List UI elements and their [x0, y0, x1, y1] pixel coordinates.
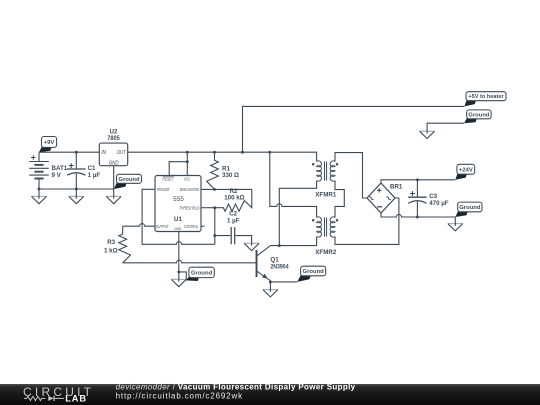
svg-text:555: 555 — [173, 196, 184, 203]
resistor R2 — [215, 189, 252, 211]
wire gnd flag link — [179, 272, 187, 280]
flag +9V — [39, 137, 57, 153]
svg-text:2N3904: 2N3904 — [270, 264, 289, 271]
pin TRIGGER — [157, 187, 170, 192]
label C2 — [229, 211, 237, 218]
ground under C1 — [69, 195, 84, 203]
flag Ground at U1 — [186, 267, 214, 281]
node battery bottom — [38, 188, 41, 191]
svg-text:U1: U1 — [174, 216, 182, 223]
pin RESET with overline — [162, 176, 174, 181]
label R2 — [230, 188, 238, 195]
bridge rectifier BR1 — [367, 183, 395, 213]
resistor R3 — [119, 226, 131, 263]
label U2 — [110, 129, 118, 135]
node C1 bottom — [75, 188, 78, 191]
value 1 kohm — [104, 248, 118, 255]
label BR1 — [390, 184, 403, 191]
value 470 uF — [429, 200, 449, 207]
node C3 top — [416, 178, 419, 181]
transformer XFMR2 — [312, 217, 338, 256]
wire Q1 emitter to flag — [270, 281, 297, 283]
svg-text:Ground: Ground — [459, 205, 481, 211]
svg-text:CONTROL: CONTROL — [184, 224, 199, 229]
capacitor C2 — [215, 227, 252, 244]
label C3 — [429, 193, 437, 200]
svg-text:1 µF: 1 µF — [88, 172, 101, 179]
svg-text:Ground: Ground — [191, 271, 213, 277]
label BAT1 — [52, 165, 68, 172]
transistor Q1 2N3904 — [257, 246, 271, 282]
label C1 — [88, 165, 96, 172]
svg-text:GND: GND — [174, 226, 181, 231]
svg-text:RESET: RESET — [162, 176, 174, 181]
resistor R1 — [207, 152, 219, 189]
wire Q1 emitter to ground — [269, 282, 271, 290]
op-amp U1 555 box — [155, 176, 201, 232]
wire XFMR1 primary bottom to collector — [279, 181, 316, 246]
wire THRESHOLD stub — [201, 207, 215, 209]
wire RESET loop — [169, 162, 187, 176]
node DISCHARGE R1 — [213, 188, 216, 191]
svg-text:THRESHOLD: THRESHOLD — [179, 205, 200, 210]
wire +9V rail from battery corner to U2 IN — [39, 151, 99, 153]
node U1 gnd — [177, 270, 180, 273]
wire U1 GND down — [178, 232, 180, 280]
wire C1 to ground — [75, 189, 77, 196]
CircuitLab logo — [23, 385, 92, 404]
svg-text:+9V: +9V — [44, 140, 55, 146]
svg-text:330 Ω: 330 Ω — [222, 172, 239, 179]
svg-text:9 V: 9 V — [52, 172, 62, 179]
wire battery to ground — [38, 189, 40, 196]
svg-text:devicemodder / Vacuum Flouresc: devicemodder / Vacuum Flourescent Dispal… — [116, 383, 356, 392]
wire XFMR2 primary feed with hop — [270, 152, 317, 217]
node collector XFMR join — [278, 244, 281, 247]
wire CONTROL stub — [201, 225, 205, 227]
pin GND — [109, 161, 119, 167]
value 9 V — [52, 172, 62, 179]
flag +5V to heater — [464, 92, 506, 107]
svg-text:DISCHARGE: DISCHARGE — [180, 187, 200, 192]
footer title text — [116, 383, 356, 401]
wire +5V rail from U2 OUT to XFMR1 primary top — [128, 152, 317, 161]
svg-text:U2: U2 — [110, 129, 118, 135]
ground at +24V rail — [448, 223, 463, 231]
node C1 top — [75, 151, 78, 154]
ground under Q1 — [263, 289, 278, 297]
wire THRESHOLD to TRIGGER vertical — [214, 208, 216, 245]
ground under BAT1 — [32, 195, 47, 203]
node RESET-VCC join — [186, 160, 189, 163]
wire XFMR2 secondary bottom to BR1 — [335, 198, 399, 244]
svg-text:470 µF: 470 µF — [429, 200, 449, 207]
wire VCC drop from rail — [186, 152, 188, 175]
wire BR1 + to +24V rail — [381, 180, 455, 183]
svg-text:1 µF: 1 µF — [227, 217, 240, 224]
svg-text:XFMR2: XFMR2 — [315, 249, 337, 256]
wire R3 to Q1 base — [123, 260, 257, 263]
wire minus rail to ground — [454, 217, 456, 224]
svg-text:LAB: LAB — [65, 393, 87, 403]
wire Q1 collector rail — [270, 237, 317, 246]
value 100 kohm — [224, 195, 244, 202]
wire XFMR1-XFMR2 secondary series link — [335, 181, 344, 218]
pin GND u1 — [174, 226, 181, 231]
value 2N3904 — [270, 264, 289, 271]
node VCC rail — [186, 151, 189, 154]
ground under U1 — [171, 278, 186, 286]
node THRESHOLD — [213, 206, 216, 209]
value C2 1 uF — [227, 217, 240, 224]
svg-text:VCC: VCC — [184, 177, 191, 182]
pin IN — [101, 150, 106, 156]
capacitor C1 — [67, 152, 86, 189]
flag +24V — [455, 164, 474, 180]
value 330 ohm — [222, 172, 239, 179]
svg-text:OUT: OUT — [117, 150, 127, 156]
node heater rail tap — [241, 151, 244, 154]
pin OUT — [117, 150, 127, 156]
pin VCC — [184, 177, 191, 182]
svg-text:100 kΩ: 100 kΩ — [224, 195, 244, 202]
svg-text:+24V: +24V — [459, 167, 473, 173]
svg-text:R3: R3 — [107, 239, 115, 246]
flag Ground top right — [464, 110, 491, 123]
svg-text:XFMR1: XFMR1 — [315, 191, 337, 198]
pin DISCHARGE — [180, 187, 200, 192]
value 7805 — [107, 136, 120, 142]
wire BR1 - rail with hop — [381, 213, 455, 217]
wire bottom rail battery to U2 GND — [39, 188, 114, 190]
svg-text:IN: IN — [101, 150, 106, 156]
wire top-right ground run — [427, 123, 464, 131]
svg-text:http://circuitlab.com/c2692wk: http://circuitlab.com/c2692wk — [116, 392, 244, 401]
flag Ground right — [455, 202, 482, 217]
svg-text:BR1: BR1 — [390, 184, 403, 191]
wire TRIGGER run — [142, 189, 215, 244]
flag Ground at U2 — [114, 174, 142, 189]
svg-text:Ground: Ground — [468, 112, 490, 118]
label 555 — [173, 196, 184, 203]
svg-text:TRIGGER: TRIGGER — [157, 187, 170, 192]
svg-text:7805: 7805 — [107, 136, 120, 142]
node R1 top — [213, 151, 216, 154]
node emitter — [269, 280, 272, 283]
transformer XFMR1 — [312, 161, 338, 199]
label R1 — [222, 165, 230, 172]
wire XFMR1 secondary top to BR1 — [335, 153, 367, 198]
pin CONTROL — [184, 224, 199, 229]
node C3 bottom — [416, 216, 419, 219]
svg-text:OUTPUT: OUTPUT — [156, 224, 170, 229]
node C2 tap — [213, 234, 216, 237]
svg-text:1 kΩ: 1 kΩ — [104, 248, 118, 255]
flag Ground at Q1 — [297, 266, 326, 282]
svg-text:+5V to heater: +5V to heater — [468, 94, 504, 100]
label U1 — [174, 216, 182, 223]
pin OUTPUT — [156, 224, 170, 229]
label R3 — [107, 239, 115, 246]
footer bar — [0, 384, 540, 405]
svg-text:Ground: Ground — [118, 177, 140, 183]
wire U2 GND down to ground — [113, 166, 115, 197]
wire DISCHARGE — [201, 188, 252, 190]
wire OUTPUT run — [123, 224, 155, 227]
battery BAT1 — [29, 152, 49, 189]
svg-text:Q1: Q1 — [270, 256, 279, 263]
svg-text:Ground: Ground — [303, 269, 325, 275]
pin THRESHOLD — [179, 205, 200, 210]
value 1 uF — [88, 172, 101, 179]
regulator U2 7805 — [99, 143, 127, 166]
ground under U2 GND — [106, 195, 121, 203]
ground top right — [420, 130, 435, 138]
node XFMR2 feed tap — [268, 151, 271, 154]
label Q1 — [270, 256, 279, 263]
ground under C2 — [244, 242, 259, 250]
capacitor C3 — [408, 180, 426, 217]
wire +5V to heater rail — [243, 106, 465, 152]
